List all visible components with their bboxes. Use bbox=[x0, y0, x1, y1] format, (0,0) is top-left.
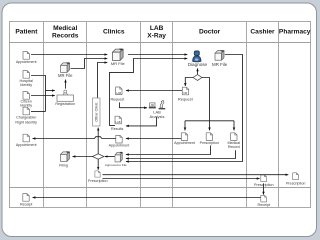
wire Prescription(Cashier) down to Receipt(Cashier) bbox=[263, 183, 265, 194]
wire diamond(Clinics) down to Prescription(Clinics) bbox=[97, 159, 99, 170]
svg-text:Right Identity: Right Identity bbox=[15, 120, 37, 124]
svg-text:Record: Record bbox=[228, 145, 240, 149]
person icon Diagnose (Doctor) bbox=[188, 51, 208, 67]
wire trunk branch to Registration bbox=[46, 90, 55, 92]
svg-text:Appointment: Appointment bbox=[16, 60, 37, 64]
svg-text:Diagnose: Diagnose bbox=[188, 62, 208, 67]
wire diamond(Doctor) right down to bracket bbox=[202, 78, 210, 121]
column divider Medical Records/Clinics bbox=[86, 22, 88, 208]
document Appointment (Clinics) bbox=[116, 135, 122, 143]
wire diamond(Doctor) up to Diagnose bbox=[197, 68, 199, 74]
3D icon MR File (Clinics top) bbox=[113, 49, 124, 61]
document Citizen Identity (Patient) bbox=[23, 92, 29, 100]
document Medical Record (Doctor) bbox=[231, 133, 237, 141]
wire LAB Analysis down-left to Results bbox=[126, 117, 157, 126]
wire Chargeable identity to trunk bbox=[31, 111, 46, 113]
wire Receipt(Cashier) to Receipt(Patient) bbox=[33, 197, 261, 199]
decision diamond (Doctor) bbox=[193, 75, 202, 81]
lab machine icons LAB Analysis bbox=[149, 100, 165, 118]
svg-text:Clinics: Clinics bbox=[103, 28, 125, 35]
document DB Request (Doctor) bbox=[182, 87, 188, 95]
wire Appointment(Doctor) to Appointment(Clinics) bbox=[126, 138, 181, 140]
svg-text:Request: Request bbox=[178, 97, 194, 102]
svg-text:Prescription: Prescription bbox=[286, 181, 305, 185]
svg-text:Filing: Filing bbox=[59, 164, 68, 168]
document Prescription (Pharmacy) bbox=[293, 173, 299, 180]
wire diamond(Doctor) left down to DB Request bbox=[185, 78, 193, 87]
wire Prescription(Clinics) to Prescription(Cashier) bbox=[103, 178, 260, 180]
header bottom line bbox=[10, 42, 311, 44]
svg-text:Appointment: Appointment bbox=[109, 143, 130, 147]
svg-text:AB: AB bbox=[151, 104, 155, 107]
wire Approved to File to diamond(Clinics) bbox=[105, 156, 115, 158]
svg-text:Analysis: Analysis bbox=[150, 114, 165, 119]
3D icon MR File (Medical Records) bbox=[61, 62, 70, 72]
wire Registration up to MR File(MedRec) bbox=[65, 80, 67, 89]
table outer border bbox=[10, 22, 311, 208]
svg-text:Other Clinic: Other Clinic bbox=[95, 102, 99, 121]
svg-text:Request: Request bbox=[111, 98, 125, 102]
wire diamond(Clinics) up to Other Clinic bbox=[97, 128, 99, 154]
wire Hospital Identity elbow trunk bbox=[31, 76, 46, 112]
column divider Patient/Medical Records bbox=[43, 22, 45, 208]
svg-text:Appointment: Appointment bbox=[16, 143, 37, 147]
document Hospital Identity (Patient) bbox=[23, 71, 29, 79]
svg-text:Cashier: Cashier bbox=[250, 28, 275, 35]
svg-text:Pharmacy: Pharmacy bbox=[279, 28, 311, 35]
svg-text:Registration: Registration bbox=[55, 102, 75, 106]
wire bracket drop to Medical Record(Doctor) bbox=[233, 121, 235, 131]
wire Prescription(Doctor) down-left to Approved to File bbox=[126, 146, 211, 155]
wire bracket drop to Appointment(Doctor) bbox=[184, 121, 186, 131]
task box Other Clinic (vertical text) bbox=[93, 98, 100, 126]
svg-text:Medical: Medical bbox=[53, 25, 77, 32]
wire diamond(Clinics) left to Filing bbox=[73, 156, 93, 158]
wire MR File(Clinics) to Diagnose bbox=[128, 54, 187, 56]
document Results (Clinics) bbox=[115, 116, 121, 124]
3D icon Approved to File (Clinics) bbox=[115, 152, 123, 162]
wire DB Request to LAB Request bbox=[126, 90, 182, 92]
svg-text:Identity: Identity bbox=[20, 103, 32, 107]
3D icon MR File (Doctor) bbox=[215, 50, 224, 60]
document Appointment (Patient top) bbox=[23, 52, 29, 60]
svg-text:LAB: LAB bbox=[150, 25, 164, 32]
svg-text:Approved to File: Approved to File bbox=[105, 163, 127, 167]
svg-text:Receipt: Receipt bbox=[20, 203, 33, 207]
column divider Clinics/LAB bbox=[140, 22, 142, 208]
document Receipt (Cashier) bbox=[261, 195, 267, 202]
svg-text:Records: Records bbox=[52, 32, 79, 39]
svg-text:Prescription: Prescription bbox=[88, 179, 107, 183]
svg-text:MR File: MR File bbox=[111, 61, 126, 66]
wire Results via elbows to Diagnose bbox=[110, 59, 188, 126]
wire Citizen Identity to Registration bbox=[31, 95, 55, 97]
document LAB Request (Clinics) bbox=[116, 87, 122, 95]
svg-text:Chargeable/: Chargeable/ bbox=[16, 116, 37, 120]
svg-text:MR File: MR File bbox=[58, 73, 73, 78]
document Receipt (Patient bottom) bbox=[23, 194, 29, 202]
wire Other Clinic box up to MR File(Clinics) bbox=[98, 63, 108, 98]
svg-text:Identity: Identity bbox=[20, 83, 32, 87]
svg-text:X-Ray: X-Ray bbox=[147, 32, 166, 39]
svg-text:Prescription: Prescription bbox=[200, 141, 219, 145]
wire MR File(Doctor) down to Approved to File bbox=[126, 55, 243, 162]
wire Appointment(Patient) to MR File(Clinics) bbox=[31, 54, 107, 56]
wire bracket over Doctor documents bbox=[185, 120, 234, 122]
column divider Cashier/Pharmacy bbox=[278, 22, 280, 208]
document Prescription (Clinics bottom) bbox=[95, 171, 100, 177]
wire MR File(MedRec) elbow to MR File(Clinics) bbox=[71, 59, 108, 69]
svg-text:Results: Results bbox=[111, 127, 123, 131]
wire LAB Request down to LAB Analysis bbox=[120, 102, 148, 107]
svg-text:MR File: MR File bbox=[212, 62, 228, 67]
decision diamond (Clinics) bbox=[92, 154, 104, 159]
document Appointment 2 (Patient) bbox=[23, 134, 29, 142]
wire Prescription(Clinics) to Prescription(Pharmacy) bbox=[103, 174, 289, 176]
3D icon Filing (Medical Records) bbox=[61, 151, 70, 161]
process Registration (rect with small person) bbox=[55, 90, 75, 106]
svg-text:DB: DB bbox=[183, 91, 187, 95]
svg-text:LAB: LAB bbox=[116, 91, 121, 95]
document Appointment (Doctor) bbox=[181, 133, 187, 141]
svg-text:Appointment: Appointment bbox=[174, 141, 195, 145]
document Chargeable/Right Identity (Patient) bbox=[23, 107, 29, 115]
column divider LAB/Doctor bbox=[172, 22, 174, 208]
svg-text:Receipt: Receipt bbox=[258, 203, 271, 207]
document Prescription (Cashier) bbox=[261, 175, 267, 182]
wire bracket drop to Prescription(Doctor) bbox=[209, 121, 211, 131]
svg-text:Doctor: Doctor bbox=[199, 28, 221, 35]
svg-text:Patient: Patient bbox=[15, 28, 38, 35]
row divider line bbox=[10, 187, 311, 189]
column divider Doctor/Cashier bbox=[246, 22, 248, 208]
document Prescription (Doctor) bbox=[206, 133, 212, 141]
wire Medical Record(Doctor) down-left to Approved to File bbox=[126, 150, 236, 158]
svg-text:LAB: LAB bbox=[116, 120, 121, 124]
wire Appointment(Clinics) to Appointment(Patient) with hop bbox=[33, 137, 116, 139]
